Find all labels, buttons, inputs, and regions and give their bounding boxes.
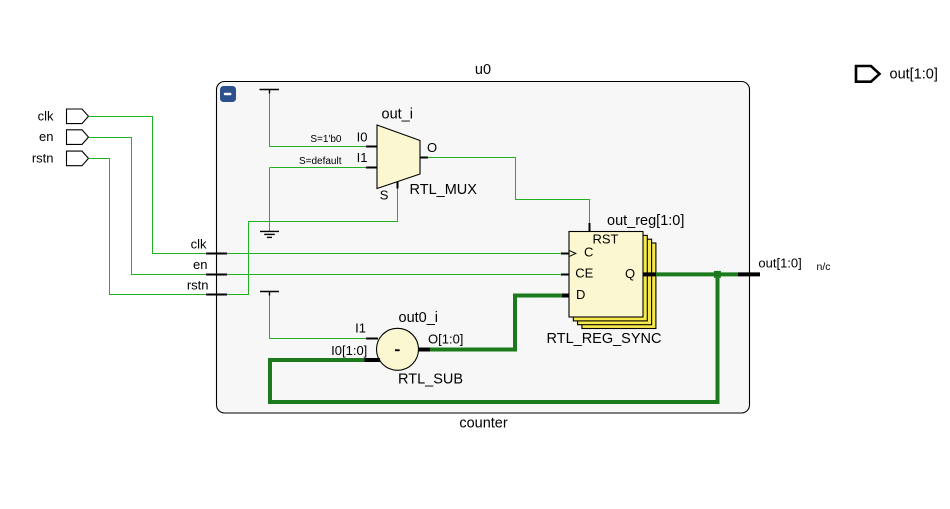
svg-text:Q: Q <box>625 266 635 281</box>
svg-text:CE: CE <box>575 266 593 281</box>
svg-text:RTL_MUX: RTL_MUX <box>410 182 478 198</box>
svg-text:out_i: out_i <box>382 106 413 122</box>
svg-text:u0: u0 <box>475 62 491 78</box>
svg-text:I0[1:0]: I0[1:0] <box>331 343 367 358</box>
svg-text:rstn: rstn <box>32 151 54 166</box>
svg-text:S=1'b0: S=1'b0 <box>310 134 342 145</box>
svg-text:D: D <box>576 287 585 302</box>
svg-text:I1: I1 <box>355 320 366 335</box>
svg-text:C: C <box>584 245 593 260</box>
svg-text:S: S <box>380 187 389 202</box>
svg-text:O[1:0]: O[1:0] <box>428 332 463 347</box>
svg-text:I0: I0 <box>357 129 368 144</box>
svg-text:RTL_SUB: RTL_SUB <box>398 372 463 388</box>
svg-text:n/c: n/c <box>817 261 831 273</box>
svg-text:RST: RST <box>593 232 619 247</box>
svg-text:rstn: rstn <box>187 278 209 293</box>
svg-text:S=default: S=default <box>299 156 342 167</box>
svg-text:en: en <box>39 129 53 144</box>
svg-text:out_reg[1:0]: out_reg[1:0] <box>607 213 684 229</box>
svg-text:out[1:0]: out[1:0] <box>890 66 938 82</box>
svg-text:RTL_REG_SYNC: RTL_REG_SYNC <box>547 331 662 347</box>
svg-text:counter: counter <box>459 415 508 431</box>
svg-text:out[1:0]: out[1:0] <box>758 255 801 270</box>
svg-text:en: en <box>193 257 207 272</box>
svg-text:clk: clk <box>38 108 54 123</box>
svg-text:O: O <box>427 140 437 155</box>
svg-text:out0_i: out0_i <box>399 310 439 326</box>
svg-text:I1: I1 <box>357 150 368 165</box>
svg-text:clk: clk <box>191 236 207 251</box>
